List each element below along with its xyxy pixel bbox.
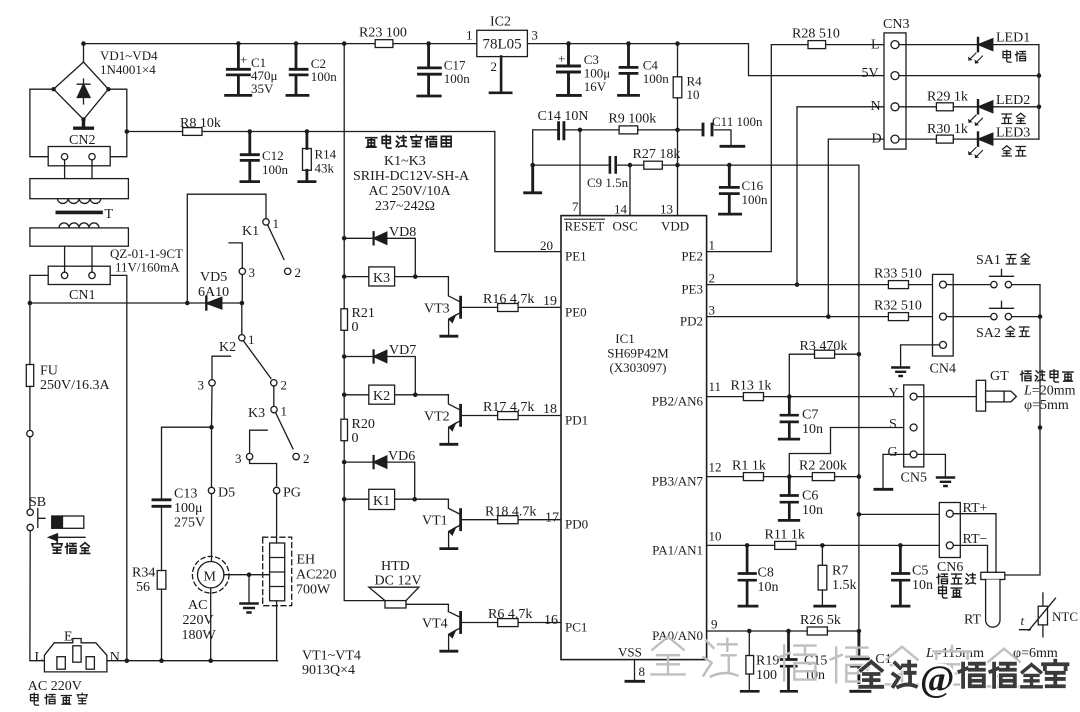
switch K3 contacts xyxy=(246,406,299,485)
svg-text:CN3: CN3 xyxy=(883,17,909,32)
resistor R20 xyxy=(341,419,348,441)
svg-text:CN2: CN2 xyxy=(69,133,95,148)
label R7 1.5k xyxy=(832,564,857,594)
svg-text:IC2: IC2 xyxy=(490,15,511,30)
svg-text:SA1: SA1 xyxy=(976,253,1001,268)
label R28 510 xyxy=(792,27,840,42)
svg-text:CN6: CN6 xyxy=(937,560,963,575)
label pin 20 xyxy=(540,238,553,253)
svg-text:3: 3 xyxy=(235,451,242,466)
svg-text:K3: K3 xyxy=(248,406,265,421)
pushbutton SA2 xyxy=(947,301,1041,320)
svg-text:3: 3 xyxy=(249,265,256,280)
labels RT+ RT- xyxy=(963,501,988,547)
AC socket symbol xyxy=(44,639,107,672)
ground symbol right of CN5 xyxy=(937,478,954,487)
svg-text:PD2: PD2 xyxy=(680,314,703,329)
temperature probe RT xyxy=(981,572,1005,627)
svg-text:C13: C13 xyxy=(174,487,197,502)
svg-text:1: 1 xyxy=(466,28,473,43)
svg-text:R30 1k: R30 1k xyxy=(927,122,968,137)
junction dots SA rail xyxy=(1038,314,1043,430)
svg-text:0: 0 xyxy=(352,320,359,335)
svg-text:R32 510: R32 510 xyxy=(874,299,922,314)
svg-text:100n: 100n xyxy=(742,192,769,207)
resistor R27 xyxy=(644,161,859,169)
svg-text:E: E xyxy=(64,630,73,645)
svg-text:Y: Y xyxy=(889,386,899,401)
svg-text:PE2: PE2 xyxy=(681,249,703,264)
svg-text:1.5k: 1.5k xyxy=(832,578,857,593)
svg-text:L: L xyxy=(35,650,44,665)
connector CN5 xyxy=(904,385,924,467)
capacitor C2 xyxy=(287,44,308,96)
switch SB with positioning post xyxy=(27,509,85,541)
label C13 100u 275V xyxy=(174,487,205,531)
junction dot RT+ sensor vertical xyxy=(857,512,862,517)
svg-text:100n: 100n xyxy=(262,162,289,177)
svg-text:R17 4.7k: R17 4.7k xyxy=(483,400,534,415)
heater EH dashed box and element xyxy=(263,494,292,661)
svg-text:(X303097): (X303097) xyxy=(609,360,666,375)
svg-text:0: 0 xyxy=(352,431,359,446)
wire: PB3 row with R1 and R2 xyxy=(707,473,859,481)
label QZ-01-1-9CT 11V/160mA xyxy=(110,246,183,275)
svg-text:700W: 700W xyxy=(296,583,331,598)
label C12 100n xyxy=(262,148,289,177)
label CN4 xyxy=(930,362,956,377)
svg-text:R33 510: R33 510 xyxy=(874,267,922,282)
wire: RT- to probe xyxy=(953,545,987,572)
connector CN1 box with pins xyxy=(48,266,110,284)
svg-text:18: 18 xyxy=(543,402,557,417)
thermistor NTC symbol xyxy=(1020,593,1056,637)
wire: 12V relay rail xyxy=(344,44,385,601)
junction dots PA0 row xyxy=(747,629,861,634)
svg-text:AC 220V: AC 220V xyxy=(28,679,82,694)
svg-text:100μ: 100μ xyxy=(174,501,203,516)
label CN1 xyxy=(69,288,95,303)
svg-text:L=20mm: L=20mm xyxy=(1023,384,1076,399)
svg-text:S: S xyxy=(889,417,897,432)
svg-text:1N4001×4: 1N4001×4 xyxy=(100,62,156,77)
svg-text:PA1/AN1: PA1/AN1 xyxy=(652,542,703,557)
junction dots on R8 wire xyxy=(248,129,310,134)
label R3 470k xyxy=(800,339,848,354)
svg-text:2: 2 xyxy=(295,265,302,280)
svg-text:K2: K2 xyxy=(373,389,390,404)
svg-text:PE1: PE1 xyxy=(565,249,587,264)
label PG xyxy=(283,486,301,501)
label R26 5k xyxy=(800,613,841,628)
label VD1~VD4 1N4001x4 xyxy=(100,48,158,77)
svg-text:PC1: PC1 xyxy=(565,619,587,634)
transistor VT1 xyxy=(441,499,461,548)
wire: sensor net long vertical xyxy=(858,165,860,631)
wire: PA0 row with R26 xyxy=(707,627,859,635)
svg-text:VD5: VD5 xyxy=(200,270,227,285)
svg-text:43k: 43k xyxy=(315,161,335,176)
svg-text:VDD: VDD xyxy=(661,219,689,234)
label SB xyxy=(29,495,46,510)
svg-text:VT1: VT1 xyxy=(422,514,448,529)
junction dots PB3 row xyxy=(787,474,861,479)
label AC 220V socket (CJK approximated) xyxy=(28,679,82,694)
resistor R4 vertical to VDD xyxy=(673,44,682,216)
svg-text:R21: R21 xyxy=(352,306,375,321)
svg-text:10n: 10n xyxy=(758,580,779,595)
fuse FU xyxy=(26,303,33,430)
svg-text:11: 11 xyxy=(709,379,722,394)
watermark light outline (approximated) xyxy=(651,637,1020,687)
label VD7 xyxy=(389,343,416,358)
svg-text:17: 17 xyxy=(545,511,559,526)
wire: G pin left ground xyxy=(883,454,910,487)
svg-text:1: 1 xyxy=(273,216,280,231)
label K2 coil xyxy=(373,389,390,404)
wire: CN4 pin3 to ground xyxy=(901,345,940,366)
svg-text:R19: R19 xyxy=(756,654,779,669)
capacitor C14 on RESET line xyxy=(533,123,580,165)
label R8 10k xyxy=(180,116,221,131)
label R30 1k xyxy=(927,122,968,137)
svg-text:VSS: VSS xyxy=(618,645,642,660)
svg-text:100: 100 xyxy=(756,668,777,683)
svg-text:R27 18k: R27 18k xyxy=(633,147,681,162)
svg-text:3: 3 xyxy=(531,28,538,43)
svg-text:HTD: HTD xyxy=(381,559,410,574)
wire: CN1 left to L rail xyxy=(30,275,48,303)
labels IC2 78L05 pins xyxy=(466,15,538,75)
label LED1 / power (CJK approximated) xyxy=(996,31,1030,46)
diode VD5 xyxy=(206,297,222,310)
svg-text:78L05: 78L05 xyxy=(483,37,522,53)
svg-text:PG: PG xyxy=(283,486,301,501)
svg-text:8: 8 xyxy=(639,664,646,679)
svg-text:11V/160mA: 11V/160mA xyxy=(115,260,180,275)
svg-text:N: N xyxy=(110,650,120,665)
svg-text:SH69P42M: SH69P42M xyxy=(607,346,669,361)
labels IC1 center xyxy=(607,331,669,375)
svg-text:DC 12V: DC 12V xyxy=(375,574,422,589)
resistor R3 xyxy=(789,350,859,396)
svg-text:PB2/AN6: PB2/AN6 xyxy=(652,394,704,409)
wire: C13 branch xyxy=(162,427,212,498)
svg-text:R18 4.7k: R18 4.7k xyxy=(485,505,536,520)
capacitor C17 xyxy=(418,44,441,96)
svg-text:IC1: IC1 xyxy=(615,331,635,346)
resistor R17 xyxy=(462,412,561,420)
speaker HTD xyxy=(369,587,449,611)
label C6 10n xyxy=(802,489,823,519)
CN2 terminal bar under bridge xyxy=(75,120,93,129)
wire: transformer to CN1 xyxy=(65,246,92,272)
resistor R23 on top wire xyxy=(375,40,393,48)
svg-text:R14: R14 xyxy=(315,147,337,162)
label C17 100n xyxy=(444,58,471,87)
label C3 100u 16V xyxy=(558,51,610,94)
label FU 250V/16.3A xyxy=(40,364,111,394)
switch K1 contacts xyxy=(229,219,291,303)
label R4 10 xyxy=(687,74,703,103)
label K1 coil xyxy=(373,494,390,509)
resistor R6 xyxy=(462,619,561,627)
capacitor C1 electrolytic xyxy=(226,44,251,96)
svg-text:C7: C7 xyxy=(802,408,818,423)
label C16 100n xyxy=(742,178,769,207)
pin 8 stub and ground bar xyxy=(626,660,644,682)
label R13 1k xyxy=(731,379,772,394)
label R19 100 xyxy=(756,654,779,684)
capacitor C13 xyxy=(153,500,170,571)
label K1~K3 and relay type xyxy=(353,154,470,214)
relay coil K3 xyxy=(344,267,448,286)
wire: bridge AC left to CN2 xyxy=(30,89,54,157)
label R20 0 xyxy=(352,417,375,446)
svg-text:GT: GT xyxy=(990,369,1009,384)
resistor R7 xyxy=(815,545,835,606)
svg-text:CN5: CN5 xyxy=(901,471,927,486)
svg-text:10: 10 xyxy=(687,87,700,102)
svg-text:7: 7 xyxy=(572,199,579,214)
junction dot RESET/pin7 xyxy=(578,128,583,133)
resistor R29 xyxy=(899,103,978,111)
resistor R14 xyxy=(299,132,315,182)
svg-text:9013Q×4: 9013Q×4 xyxy=(302,663,355,678)
connector CN4 xyxy=(933,274,954,356)
svg-text:5V: 5V xyxy=(862,66,879,81)
node D5 xyxy=(208,487,214,493)
svg-text:10n: 10n xyxy=(802,503,823,518)
wire: zero-cross to PE1 pin 20 xyxy=(495,132,561,252)
IC U1 SH69P42M box xyxy=(561,216,707,660)
diode VD6 xyxy=(344,456,415,499)
labels top pin numbers 7 14 13 xyxy=(572,199,673,217)
LED3 xyxy=(968,133,1039,159)
junction dot pin14/OSC xyxy=(628,163,633,168)
svg-text:1: 1 xyxy=(248,332,255,347)
resistor R19 xyxy=(741,631,758,691)
svg-text:C5: C5 xyxy=(912,564,928,579)
wire: bridge AC right down to CN2 (tap for R8) xyxy=(108,89,129,157)
label CN6 anti-dry electrode (CJK approximated) xyxy=(937,560,963,575)
label C1 470u 35V xyxy=(240,52,278,96)
svg-text:SA2: SA2 xyxy=(976,326,1001,341)
capacitor C8 xyxy=(739,545,757,606)
label zero-cross detection text block (CJK approximated) xyxy=(366,135,451,148)
svg-text:275V: 275V xyxy=(174,516,205,531)
svg-text:R23 100: R23 100 xyxy=(359,26,407,41)
svg-text:PB3/AN7: PB3/AN7 xyxy=(652,474,704,489)
wire: CN1 right down to bottom rail xyxy=(110,275,127,660)
svg-text:R8 10k: R8 10k xyxy=(180,116,221,131)
svg-text:VT1~VT4: VT1~VT4 xyxy=(302,649,361,664)
svg-text:3: 3 xyxy=(198,378,205,393)
label R29 1k xyxy=(927,90,968,105)
svg-text:K3: K3 xyxy=(373,271,390,286)
diode VD8 xyxy=(344,232,415,276)
ground bar of C14 left xyxy=(525,165,541,193)
junction dots on AC wire xyxy=(28,301,245,306)
label R9 100k xyxy=(608,112,656,127)
svg-text:φ=5mm: φ=5mm xyxy=(1024,398,1069,413)
svg-text:RT: RT xyxy=(964,613,981,628)
svg-text:2: 2 xyxy=(709,271,716,286)
svg-text:12: 12 xyxy=(709,460,722,475)
svg-text:C14 10N: C14 10N xyxy=(538,109,589,124)
junction dot N/PE3 xyxy=(795,282,800,287)
junction dot C16 tap xyxy=(727,163,732,168)
wire: OSC net with capacitor C9 xyxy=(533,157,644,172)
svg-text:VD7: VD7 xyxy=(389,343,416,358)
label R14 43k xyxy=(315,147,337,176)
capacitor C5 xyxy=(892,545,909,606)
svg-text:R1 1k: R1 1k xyxy=(732,459,766,474)
labels IC1 top pin names with RESET overline xyxy=(565,219,690,234)
svg-text:2: 2 xyxy=(281,378,288,393)
label R23 100 xyxy=(359,26,407,41)
wire: CN2 pins to transformer xyxy=(65,160,92,179)
labels E L N xyxy=(35,630,120,666)
wire: 5V pin to LED rail xyxy=(899,75,1039,77)
junction dot VD7/K2 xyxy=(413,393,418,398)
wire: PE2 to L net vertical xyxy=(707,45,808,252)
svg-text:K1: K1 xyxy=(242,224,259,239)
svg-text:R13 1k: R13 1k xyxy=(731,379,772,394)
labels right pin numbers xyxy=(709,238,722,632)
labels CN3 and pins L 5V N D xyxy=(862,17,910,147)
svg-text:+: + xyxy=(240,52,247,67)
LED2 xyxy=(968,100,1039,126)
label R34 56 xyxy=(132,566,155,596)
wire: N net to PE3 xyxy=(797,107,884,285)
svg-text:10: 10 xyxy=(709,529,722,544)
wire: S path from CN5 S to PB3 node xyxy=(789,428,910,477)
label C15 10n xyxy=(804,654,827,684)
svg-text:FU: FU xyxy=(40,364,58,379)
capacitor C7 xyxy=(779,397,799,440)
svg-text:9: 9 xyxy=(711,617,718,632)
label R2 200k xyxy=(799,459,847,474)
labels IC1 left pin names xyxy=(565,249,588,635)
svg-text:VT2: VT2 xyxy=(424,410,450,425)
label C9 1.5n xyxy=(587,175,629,190)
label R32 510 xyxy=(874,299,922,314)
wire: K2 pin3 down to D5 and motor xyxy=(211,386,214,487)
transistor VT4 xyxy=(441,612,461,652)
label GT / anti-overflow electrode (CJK approximated) xyxy=(990,369,1009,384)
label C5 10n xyxy=(912,564,933,594)
svg-text:250V/16.3A: 250V/16.3A xyxy=(40,378,111,393)
svg-text:T: T xyxy=(105,207,114,222)
label C10 xyxy=(875,652,891,667)
label VD6 xyxy=(388,449,415,464)
svg-text:CN1: CN1 xyxy=(69,288,95,303)
node on left rail xyxy=(27,430,33,436)
electrode GT xyxy=(976,380,1016,411)
svg-text:C11 100n: C11 100n xyxy=(712,114,763,129)
label C4 100n xyxy=(643,58,670,87)
svg-text:100n: 100n xyxy=(444,71,471,86)
label SA2 quandou (CJK approximated) xyxy=(976,326,1001,341)
pushbutton SA1 xyxy=(947,269,1041,288)
svg-text:10n: 10n xyxy=(912,578,933,593)
connector CN6 xyxy=(939,503,960,558)
svg-text:R11 1k: R11 1k xyxy=(765,528,805,543)
relay coil K1 xyxy=(344,489,448,509)
svg-text:K1: K1 xyxy=(373,494,390,509)
junction dot VD8/K3 xyxy=(413,274,418,279)
svg-text:K1~K3: K1~K3 xyxy=(384,154,426,169)
svg-text:R34: R34 xyxy=(132,566,155,581)
svg-text:2: 2 xyxy=(491,59,498,74)
svg-text:10n: 10n xyxy=(802,422,823,437)
wire: left rail to SB xyxy=(29,437,31,509)
svg-text:NTC: NTC xyxy=(1052,609,1078,624)
wire: K1 pin1 feed xyxy=(187,194,266,303)
svg-text:14: 14 xyxy=(614,202,628,217)
ground symbol below CN4 xyxy=(892,368,909,377)
svg-text:LED1: LED1 xyxy=(996,31,1030,46)
svg-text:R9 100k: R9 100k xyxy=(608,112,656,127)
label R21 0 xyxy=(352,306,375,335)
wire: top 12V supply line from bridge to IC2 and onward xyxy=(84,44,885,76)
svg-text:SB: SB xyxy=(29,495,46,510)
svg-text:PA0/AN0: PA0/AN0 xyxy=(652,628,703,643)
svg-text:R3 470k: R3 470k xyxy=(800,339,848,354)
svg-text:C6: C6 xyxy=(802,489,818,504)
resistor R18 xyxy=(462,516,561,524)
wire: pin14 vertical xyxy=(629,165,631,216)
svg-text:100n: 100n xyxy=(643,71,670,86)
svg-text:16V: 16V xyxy=(584,79,607,94)
junction dots on top wire xyxy=(81,41,680,46)
wire: PE3 row with R33 to CN4 xyxy=(707,281,940,289)
label positioning post (CJK approximated) xyxy=(52,542,90,553)
svg-text:C9 1.5n: C9 1.5n xyxy=(587,175,629,190)
label VD5 6A10 xyxy=(198,270,229,300)
labels Y S G CN5 xyxy=(888,386,927,486)
wire: PA1 row xyxy=(707,541,946,549)
svg-text:R26 5k: R26 5k xyxy=(800,613,841,628)
capacitor C6 xyxy=(779,477,799,521)
transistor VT3 xyxy=(441,277,461,337)
wire: PD2 row with R32 to CN4 xyxy=(707,313,940,321)
svg-text:R16 4.7k: R16 4.7k xyxy=(483,292,534,307)
label R1 1k xyxy=(732,459,766,474)
svg-text:VT4: VT4 xyxy=(422,617,448,632)
label AC 220V 180W xyxy=(182,598,217,643)
label EH AC220 700W xyxy=(296,553,336,598)
node PG xyxy=(273,487,279,493)
junction dots LED rail xyxy=(1037,73,1042,109)
labels K2 pins xyxy=(198,332,288,393)
voltage regulator IC2 78L05 xyxy=(477,30,528,93)
junction dots on bottom rail xyxy=(125,658,214,663)
svg-text:R29 1k: R29 1k xyxy=(927,90,968,105)
svg-text:VD8: VD8 xyxy=(389,225,416,240)
svg-text:C8: C8 xyxy=(758,566,774,581)
resistor R34 xyxy=(157,571,166,661)
connector CN3 xyxy=(884,33,906,149)
labels t NTC xyxy=(1021,609,1079,628)
svg-text:φ=6mm: φ=6mm xyxy=(1013,646,1058,661)
svg-text:R6 4.7k: R6 4.7k xyxy=(488,607,532,622)
ground bar left of CN5 xyxy=(875,488,892,491)
labels K3 pins xyxy=(235,404,310,467)
label VT4 xyxy=(422,617,448,632)
svg-text:CN4: CN4 xyxy=(930,362,956,377)
